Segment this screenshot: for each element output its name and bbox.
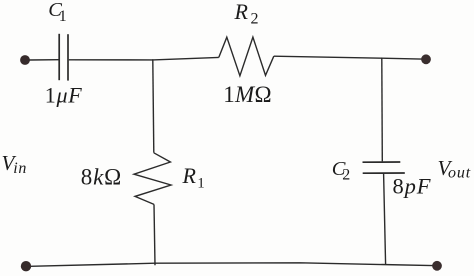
capacitor C2 — [363, 162, 405, 173]
svg-text:in: in — [13, 160, 27, 177]
label C1 — [48, 0, 67, 25]
label R1 — [182, 163, 205, 192]
svg-text:1MΩ: 1MΩ — [223, 82, 272, 107]
wire: C2 bottom plate down to bottom rail — [384, 174, 386, 265]
label Vout — [438, 156, 472, 182]
node: bottom-left terminal — [21, 261, 31, 271]
svg-text:R: R — [234, 0, 249, 24]
wire: R1 bottom lead down to bottom rail — [154, 204, 155, 265]
wire: junction A to R2 left lead — [153, 57, 219, 60]
svg-text:1: 1 — [59, 8, 67, 25]
label C2 — [332, 158, 350, 184]
svg-text:1: 1 — [197, 176, 205, 192]
capacitor C1 — [59, 34, 68, 81]
wire: bottom ground rail — [30, 263, 433, 267]
svg-text:1μF: 1μF — [45, 83, 83, 108]
svg-text:8kΩ: 8kΩ — [81, 164, 122, 189]
node: bottom-right terminal — [432, 261, 442, 271]
wire: R2 right lead to output terminal, through junction B — [274, 56, 422, 59]
wire: input terminal to C1 left plate — [29, 59, 59, 61]
svg-text:2: 2 — [251, 10, 259, 27]
node Vout (top-right output terminal) — [421, 54, 431, 64]
svg-text:8pF: 8pF — [393, 173, 432, 198]
resistor R1 (vertical zigzag) — [134, 153, 171, 205]
junction A (top node between C1, R2, R1) — [152, 59, 154, 61]
svg-text:out: out — [448, 165, 471, 182]
svg-text:R: R — [182, 163, 197, 188]
label R2 — [234, 0, 259, 27]
label Vin — [2, 151, 28, 177]
junction B (top node between R2, C2, Vout) — [381, 57, 383, 59]
wire: C1 right plate to junction A — [69, 59, 153, 61]
resistor R2 (zigzag) — [219, 37, 274, 76]
wire: junction A down to R1 top lead — [153, 60, 154, 153]
node Vin (top-left input terminal) — [20, 55, 30, 65]
svg-text:2: 2 — [342, 166, 350, 183]
wire: junction B down to C2 top plate — [381, 58, 384, 161]
